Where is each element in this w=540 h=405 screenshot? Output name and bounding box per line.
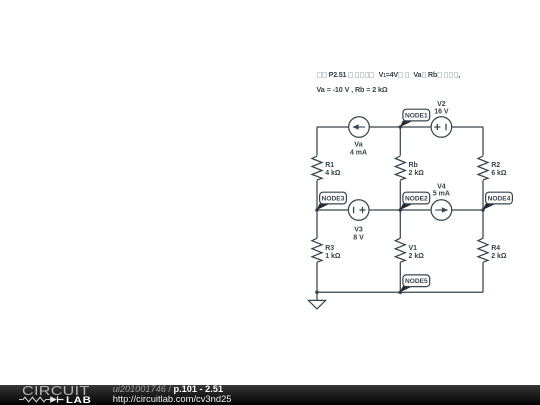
svg-text:NODE4: NODE4 — [488, 196, 511, 203]
svg-text:V4: V4 — [437, 183, 446, 190]
svg-text:6 kΩ: 6 kΩ — [491, 170, 507, 177]
svg-text:R3: R3 — [325, 245, 334, 252]
svg-text:2 kΩ: 2 kΩ — [491, 253, 507, 260]
svg-text:2 kΩ: 2 kΩ — [409, 170, 425, 177]
svg-text:5 mA: 5 mA — [433, 190, 450, 197]
svg-text:1 kΩ: 1 kΩ — [325, 253, 341, 260]
svg-text:4 mA: 4 mA — [350, 150, 367, 157]
svg-text:Rb: Rb — [409, 162, 418, 169]
svg-text:NODE2: NODE2 — [405, 196, 428, 203]
svg-text:4 kΩ: 4 kΩ — [325, 170, 341, 177]
svg-text:R2: R2 — [491, 162, 500, 169]
svg-text:V1: V1 — [409, 245, 418, 252]
svg-text:R4: R4 — [491, 245, 500, 252]
svg-text:16 V: 16 V — [434, 108, 449, 115]
svg-text:8 V: 8 V — [353, 234, 364, 241]
svg-text:V2: V2 — [437, 101, 446, 108]
svg-text:R1: R1 — [325, 162, 334, 169]
svg-text:V3: V3 — [354, 226, 363, 233]
svg-text:NODE5: NODE5 — [405, 278, 428, 285]
svg-text:NODE3: NODE3 — [322, 196, 345, 203]
svg-text:NODE1: NODE1 — [405, 113, 428, 120]
svg-text:2 kΩ: 2 kΩ — [409, 253, 425, 260]
svg-text:Va: Va — [354, 142, 362, 149]
